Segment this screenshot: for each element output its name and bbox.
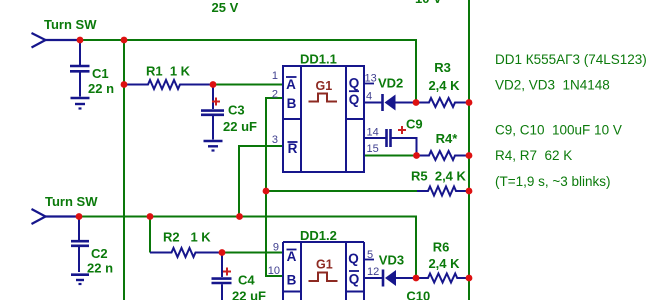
wire vertical branch x=124 bbox=[123, 40, 125, 300]
capacitor C4 (polarized) bbox=[212, 253, 232, 300]
svg-text:C1: C1 bbox=[92, 66, 109, 81]
svg-text:C9: C9 bbox=[406, 117, 423, 132]
resistor R1 bbox=[124, 80, 213, 89]
svg-text:3: 3 bbox=[272, 134, 278, 146]
plus sign C3 bbox=[212, 98, 220, 106]
svg-text:12: 12 bbox=[367, 266, 379, 278]
svg-text:VD2: VD2 bbox=[378, 76, 403, 91]
node junction B-line/R5 bbox=[263, 188, 270, 195]
Turn SW input arrow bottom bbox=[32, 209, 80, 224]
wire R5 row bbox=[266, 190, 417, 192]
svg-text:C9, C10 100uF 10 V: C9, C10 100uF 10 V bbox=[495, 123, 622, 138]
op-amp DD1.1 chip body bbox=[283, 66, 364, 172]
node junction R1 left bbox=[121, 81, 128, 88]
svg-text:22 n: 22 n bbox=[88, 81, 114, 96]
resistor R5 bbox=[417, 187, 469, 196]
svg-text:R5 2,4 K: R5 2,4 K bbox=[411, 169, 467, 184]
node junction C9/pin15/R4 bbox=[413, 152, 420, 159]
svg-text:(T=1,9 s, ~3 blinks): (T=1,9 s, ~3 blinks) bbox=[495, 174, 611, 189]
wire pin9 row bbox=[222, 252, 283, 254]
svg-text:Q: Q bbox=[348, 251, 359, 266]
svg-text:R3: R3 bbox=[434, 60, 451, 75]
node junction R5/rail bbox=[466, 188, 473, 195]
op-amp DD1.2 chip body bbox=[283, 242, 364, 300]
resistor R2 bbox=[150, 248, 222, 257]
svg-text:14: 14 bbox=[367, 127, 379, 139]
wire pin3 branch bbox=[239, 146, 283, 217]
svg-text:C3: C3 bbox=[228, 103, 245, 118]
wire supply rail 10V bbox=[468, 0, 470, 300]
svg-text:22 uF: 22 uF bbox=[232, 289, 266, 300]
node junction R4/rail bbox=[466, 152, 473, 159]
svg-text:2: 2 bbox=[272, 89, 278, 101]
wire top main horizontal with corner down bbox=[80, 40, 416, 103]
wire pin1 row bbox=[213, 84, 283, 86]
svg-text:Turn SW: Turn SW bbox=[44, 17, 97, 32]
svg-text:9: 9 bbox=[273, 242, 279, 254]
plus sign C9 bbox=[398, 126, 406, 134]
node junction branch top bbox=[121, 37, 128, 44]
diode VD3 bbox=[364, 270, 416, 287]
svg-text:2,4 K: 2,4 K bbox=[428, 78, 460, 93]
svg-text:G1: G1 bbox=[316, 79, 333, 93]
capacitor C1 bbox=[70, 40, 90, 97]
svg-text:2,4 K: 2,4 K bbox=[428, 256, 460, 271]
svg-text:R2 1 K: R2 1 K bbox=[163, 230, 211, 245]
svg-text:R4, R7 62 K: R4, R7 62 K bbox=[495, 148, 572, 163]
svg-text:C10: C10 bbox=[406, 289, 430, 300]
svg-text:10: 10 bbox=[268, 265, 280, 277]
wire pin15 row bbox=[364, 155, 417, 157]
svg-text:15: 15 bbox=[367, 143, 379, 155]
svg-text:B: B bbox=[287, 273, 297, 288]
svg-text:Turn SW: Turn SW bbox=[45, 194, 98, 209]
svg-text:22 uF: 22 uF bbox=[223, 119, 257, 134]
node junction VD3/R6 bbox=[413, 275, 420, 282]
node junction C1 bbox=[77, 37, 84, 44]
svg-text:22 n: 22 n bbox=[87, 261, 113, 276]
node junction R6/rail bbox=[466, 275, 473, 282]
capacitor C2 bbox=[71, 217, 89, 273]
ground below C1 bbox=[71, 98, 90, 109]
svg-text:C4: C4 bbox=[238, 273, 255, 288]
capacitor C9 bbox=[364, 129, 417, 156]
svg-text:A: A bbox=[286, 77, 296, 92]
node junction R3/rail bbox=[466, 99, 473, 106]
wire R2 branch bbox=[149, 217, 151, 253]
svg-text:VD2, VD3 1N4148: VD2, VD3 1N4148 bbox=[495, 78, 610, 93]
node junction R2/C4/pin9 bbox=[219, 249, 226, 256]
wire B-inputs vertical pin2 to pin10 bbox=[266, 98, 283, 276]
svg-text:R1 1 K: R1 1 K bbox=[146, 64, 191, 79]
svg-text:B: B bbox=[287, 96, 297, 111]
svg-text:4: 4 bbox=[366, 91, 372, 103]
svg-text:R: R bbox=[288, 141, 298, 156]
Turn SW input arrow top bbox=[32, 33, 81, 48]
svg-text:Q: Q bbox=[349, 272, 360, 287]
resistor R4 bbox=[417, 151, 470, 160]
svg-text:10 V: 10 V bbox=[415, 0, 442, 6]
node junction VD2/R3 bbox=[413, 99, 420, 106]
pulse symbol DD1.2 bbox=[309, 273, 338, 282]
resistor R3 bbox=[417, 98, 469, 107]
node junction C2 bbox=[76, 213, 83, 220]
svg-text:1: 1 bbox=[272, 70, 278, 82]
wire bottom main horizontal with corner down bbox=[79, 217, 416, 278]
ground below C2 bbox=[71, 275, 89, 284]
pulse symbol DD1.1 bbox=[309, 94, 338, 102]
svg-text:R4*: R4* bbox=[436, 131, 459, 146]
svg-text:DD1.1: DD1.1 bbox=[300, 52, 337, 67]
resistor R6 bbox=[417, 274, 470, 283]
svg-text:VD3: VD3 bbox=[379, 253, 404, 268]
svg-text:A: A bbox=[287, 249, 297, 264]
svg-text:G1: G1 bbox=[316, 258, 333, 272]
svg-text:DD1 К555АГ3 (74LS123): DD1 К555АГ3 (74LS123) bbox=[495, 52, 647, 67]
svg-text:C2: C2 bbox=[91, 246, 108, 261]
svg-text:Q: Q bbox=[349, 76, 360, 91]
diode VD2 bbox=[364, 94, 416, 111]
node junction R1/C3/pin1 bbox=[210, 81, 217, 88]
ground below C3 bbox=[204, 141, 223, 151]
svg-text:25 V: 25 V bbox=[212, 0, 239, 15]
svg-text:DD1.2: DD1.2 bbox=[300, 228, 337, 243]
capacitor C3 (polarized) bbox=[201, 85, 224, 140]
plus sign C4 bbox=[223, 268, 231, 276]
svg-text:R6: R6 bbox=[433, 240, 450, 255]
svg-text:Q: Q bbox=[349, 92, 360, 107]
node junction pin3 branch bbox=[236, 213, 243, 220]
node junction R2 branch bbox=[147, 213, 154, 220]
